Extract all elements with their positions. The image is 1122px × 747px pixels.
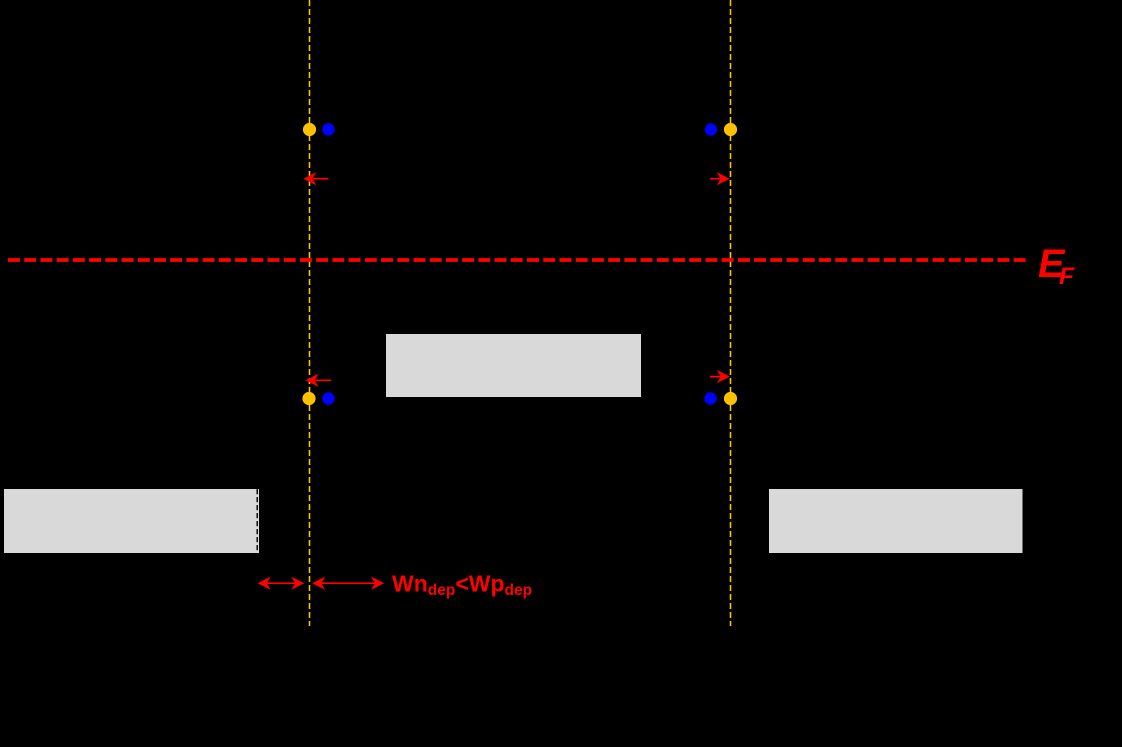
wire top-right arrow pointing right [710,172,730,185]
node left gray band rectangle [4,489,259,553]
wire mid-left arrow pointing left [306,374,332,387]
node middle gray band rectangle [386,334,641,397]
wire Fermi level EF dashed line [8,258,1025,262]
node left junction dashed line [309,0,311,626]
node mid-left dot pair [302,392,315,405]
node right gray band rectangle [769,489,1023,553]
node right junction dashed line [730,0,732,626]
node top-left dot pair [303,123,316,136]
wire left depletion width double arrow [258,577,305,590]
node mid-right dot pair [704,392,716,404]
wire old depletion edge dashed line on left rect [256,489,258,553]
wire right depletion width double arrow [312,577,384,590]
node top-right dot pair [705,123,717,135]
svg-text:F: F [1059,263,1075,290]
wire top-left arrow pointing left [303,172,328,185]
wire mid-right arrow pointing right [710,370,730,383]
